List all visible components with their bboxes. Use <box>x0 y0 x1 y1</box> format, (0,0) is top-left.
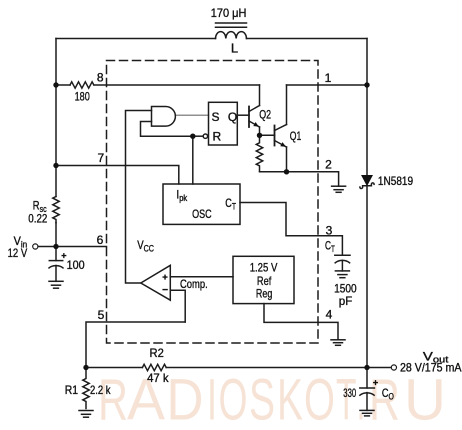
capacitor CO 330uF <box>366 368 368 389</box>
node pin1/right rail <box>364 82 369 87</box>
svg-text:3: 3 <box>326 223 333 237</box>
wire left rail lower <box>55 223 57 247</box>
wire OSC CT output to pin 3 <box>240 203 342 256</box>
svg-text:OSC: OSC <box>192 207 212 221</box>
inductor L1 winding <box>216 32 247 39</box>
latch box S/R <box>209 102 238 145</box>
svg-text:2: 2 <box>325 157 332 171</box>
wire pin 8 to Q2 collector <box>94 84 259 86</box>
wire bottom rail to Vout node <box>166 367 367 369</box>
node Q1 emitter pin2 <box>284 169 289 174</box>
svg-text:O: O <box>304 368 335 430</box>
Q2 emitter arrow <box>253 122 258 127</box>
wire top rail left <box>56 38 216 40</box>
svg-text:Q: Q <box>228 110 237 124</box>
wire pin 8 left segment <box>56 84 70 86</box>
svg-text:R1: R1 <box>65 383 79 397</box>
svg-text:L: L <box>231 41 238 56</box>
ground below CT <box>335 271 349 278</box>
capacitor C1 100uF <box>55 247 57 261</box>
wire pin 4 from Ref Reg to ground <box>264 304 338 340</box>
wire left rail upper <box>55 39 57 197</box>
comparator triangle <box>141 265 171 300</box>
wire right rail lower <box>366 186 368 368</box>
resistor 180 <box>70 82 94 88</box>
wire R input to bubble <box>193 135 203 137</box>
svg-text:7: 7 <box>97 151 104 165</box>
transistor Q1 <box>260 125 287 148</box>
svg-text:2.2 k: 2.2 k <box>90 383 111 397</box>
watermark RADIOSKOT.RU <box>98 368 446 430</box>
capacitor CT 1500pF <box>335 254 350 256</box>
svg-text:100: 100 <box>67 258 85 272</box>
svg-text:330: 330 <box>343 386 356 400</box>
svg-text:4: 4 <box>326 308 333 322</box>
transistor Q2 <box>249 106 260 136</box>
inductor L1 core lines <box>216 22 247 24</box>
ground below pin 2 <box>332 186 346 192</box>
svg-text:+: + <box>162 272 168 283</box>
ground below pin 4 <box>331 340 345 346</box>
svg-text:+: + <box>373 378 378 388</box>
svg-text:.: . <box>357 368 366 430</box>
resistor R1 <box>83 368 89 409</box>
svg-text:R2: R2 <box>150 346 165 360</box>
OSC box <box>163 184 240 224</box>
R input inversion bubble <box>203 134 207 138</box>
wire bottom rail left segment <box>86 367 142 369</box>
wire Vout terminal stub <box>367 367 391 369</box>
svg-text:1.25 V: 1.25 V <box>250 260 278 274</box>
Q1 emitter arrow <box>280 142 286 147</box>
ground below C1 <box>49 281 63 288</box>
AND gate U1a <box>152 107 176 127</box>
wire top rail right <box>247 38 368 40</box>
node Q2 emitter <box>257 133 262 138</box>
svg-text:D: D <box>167 368 204 430</box>
node pin8/left rail <box>53 82 58 87</box>
svg-text:5: 5 <box>98 308 105 322</box>
Ref Reg box <box>233 256 294 303</box>
wire comparator + input to reference <box>170 276 233 278</box>
svg-text:−: − <box>162 285 168 296</box>
svg-text:R: R <box>212 130 221 144</box>
wire pin 7 to Ipk <box>56 166 179 185</box>
svg-text:180: 180 <box>75 89 90 103</box>
wire latch Q output to Q2 base <box>237 114 249 116</box>
wire right rail upper <box>366 39 368 176</box>
svg-text:47 k: 47 k <box>147 371 169 385</box>
wire AND output to S input (gray) <box>175 114 208 116</box>
svg-text:K: K <box>277 368 303 430</box>
wire Q1 emitter down <box>286 147 288 172</box>
svg-text:1: 1 <box>325 71 332 85</box>
wire pin 1 from Q1 collector <box>287 84 368 86</box>
svg-text:S: S <box>249 368 275 430</box>
svg-text:U: U <box>404 368 446 430</box>
svg-text:S: S <box>211 110 219 124</box>
wire pin 6 (Vin input) <box>38 246 107 248</box>
node Vout <box>364 365 369 370</box>
wire R-node down to OSC box <box>192 136 194 184</box>
wire comparator - input to pin 5 <box>170 290 185 322</box>
svg-text:Q2: Q2 <box>259 107 271 121</box>
wire oscillator to AND gate lower input <box>141 122 193 137</box>
svg-text:O: O <box>219 368 248 430</box>
svg-text:6: 6 <box>97 233 104 247</box>
svg-text:pF: pF <box>339 294 353 308</box>
resistor Rsc <box>53 197 59 223</box>
diode D1 1N5819 schottky cathode bar <box>360 183 374 189</box>
wire pin 5 <box>86 322 185 368</box>
diode D1 triangle <box>362 175 373 185</box>
node Vin/left rail <box>53 244 58 249</box>
terminal Vout <box>391 365 396 370</box>
wire pin 2 <box>260 172 339 186</box>
terminal Vin <box>33 244 38 249</box>
svg-text:12 V: 12 V <box>8 246 28 260</box>
ground below CO <box>360 410 374 416</box>
svg-text:28 V/175 mA: 28 V/175 mA <box>400 361 461 375</box>
node feedback R1/R2 <box>83 365 88 370</box>
svg-text:Reg: Reg <box>256 287 272 301</box>
svg-text:R: R <box>98 368 128 430</box>
svg-text:Comp.: Comp. <box>180 277 208 291</box>
svg-text:I: I <box>207 368 217 430</box>
svg-text:Q1: Q1 <box>290 129 302 143</box>
wire comparator output to AND gate input <box>126 111 152 284</box>
node latch R input <box>190 134 195 139</box>
resistor R2 <box>142 364 166 370</box>
svg-text:0.22: 0.22 <box>28 211 47 225</box>
svg-text:1N5819: 1N5819 <box>378 174 413 188</box>
svg-text:170 μH: 170 μH <box>211 6 247 20</box>
svg-text:8: 8 <box>97 71 104 85</box>
node pin7/left rail <box>53 163 58 168</box>
wire Q2 collector to pin-8 rail <box>259 85 261 106</box>
dashed IC boundary box <box>107 61 319 344</box>
ground below R1 <box>79 411 93 418</box>
resistor Q2 emitter (base bleed) <box>256 135 262 171</box>
